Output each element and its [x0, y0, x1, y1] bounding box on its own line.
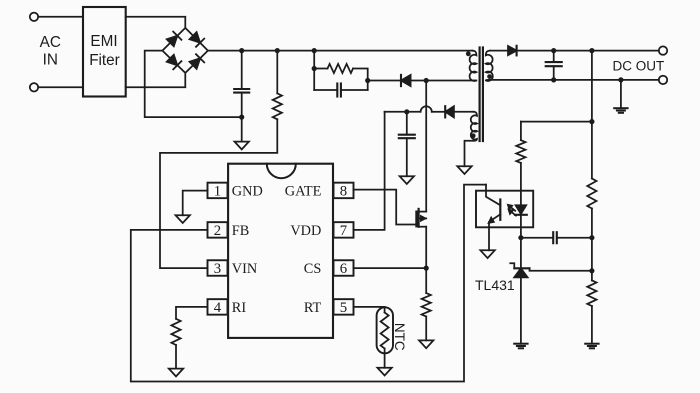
- svg-text:3: 3: [214, 261, 221, 277]
- junction: [312, 48, 317, 53]
- resistor R3 upper divider: [587, 179, 596, 209]
- wire: [521, 121, 592, 123]
- svg-text:5: 5: [340, 300, 347, 316]
- wire: [314, 68, 327, 70]
- svg-text:4: 4: [214, 300, 222, 316]
- svg-text:6: 6: [340, 261, 347, 277]
- pin 1 GND: [208, 183, 263, 200]
- svg-text:VDD: VDD: [290, 223, 321, 239]
- label: AC IN: [40, 34, 61, 68]
- capacitor C4 output: [546, 51, 562, 80]
- junction: [404, 109, 409, 114]
- diode D3 output: [508, 46, 517, 56]
- EMI filter block: [83, 7, 126, 97]
- wire: [126, 17, 186, 28]
- wire: [38, 16, 83, 18]
- ground: [480, 250, 494, 258]
- wire: output return: [490, 79, 659, 81]
- svg-text:EMI: EMI: [90, 33, 117, 50]
- ground: earth: [614, 108, 627, 113]
- transformer T1 core: [480, 48, 483, 142]
- wire: [490, 50, 507, 52]
- wire: [354, 307, 385, 313]
- capacitor C3 VDD: [399, 112, 415, 176]
- junction: [589, 268, 594, 273]
- pin 5 RT: [304, 299, 354, 316]
- svg-text:Fiter: Fiter: [89, 52, 120, 69]
- terminal: AC IN bottom: [30, 83, 38, 91]
- label: TL431: [475, 277, 515, 293]
- wire: pin1 to gnd: [183, 191, 208, 216]
- wire: [313, 51, 315, 90]
- label: NTC: [392, 323, 407, 351]
- label: DC OUT: [613, 58, 665, 73]
- wire: [520, 277, 522, 343]
- pin 2 FB: [208, 222, 250, 239]
- wire: aux with hop over drain: [385, 106, 446, 112]
- capacitor C2 clamp: [337, 84, 341, 97]
- junction: [239, 48, 244, 53]
- resistor R6 RI: [171, 319, 180, 345]
- wire: [145, 51, 242, 118]
- ground: [176, 215, 190, 223]
- wire: [38, 86, 83, 88]
- wire: [276, 51, 278, 94]
- pin 6 CS: [304, 260, 354, 277]
- wire: FB loop: [131, 185, 486, 382]
- ground: earth: [514, 344, 527, 349]
- diode D1 clamp: [401, 75, 411, 86]
- junction: [424, 78, 429, 83]
- wire: HV rail: [208, 50, 472, 52]
- junction: [551, 77, 556, 82]
- resistor R4 lower divider: [587, 280, 596, 306]
- transformer T1 primary winding: [470, 51, 477, 81]
- wire: [341, 89, 368, 91]
- wire: [520, 238, 522, 269]
- polarity dot primary: [466, 51, 471, 56]
- capacitor C5 comp: [553, 232, 557, 243]
- wire: [557, 237, 592, 239]
- junction: [239, 115, 244, 120]
- svg-text:GATE: GATE: [285, 183, 322, 199]
- opto transistor: [486, 185, 500, 251]
- ground: [419, 340, 433, 348]
- label: EMI Fiter: [89, 33, 120, 69]
- svg-text:2: 2: [214, 223, 221, 239]
- terminal: DC OUT +: [659, 46, 667, 54]
- wire: [126, 73, 186, 87]
- svg-text:RI: RI: [232, 300, 247, 316]
- resistor R7 sense: [422, 293, 431, 317]
- capacitor C1 bulk: [234, 51, 249, 118]
- bridge diode top-right: [190, 32, 205, 47]
- transformer T1 secondary winding: [486, 51, 493, 81]
- junction: [589, 235, 594, 240]
- optocoupler U2 box: [476, 191, 533, 228]
- svg-text:RT: RT: [304, 300, 322, 316]
- terminal: AC IN top: [30, 13, 38, 21]
- svg-text:TL431: TL431: [475, 277, 515, 293]
- terminal: DC OUT -: [659, 76, 667, 84]
- wire: [517, 50, 659, 52]
- resistor R2 clamp: [328, 64, 354, 73]
- pin 7 VDD: [290, 222, 353, 239]
- junction: [618, 77, 623, 82]
- ground: earth: [585, 344, 598, 349]
- wire: VDD: [354, 112, 385, 230]
- wire: [620, 80, 622, 108]
- svg-text:NTC: NTC: [392, 323, 407, 351]
- wire: drain: [425, 81, 427, 212]
- wire: [425, 317, 427, 341]
- wire: [160, 119, 277, 268]
- svg-text:VIN: VIN: [232, 261, 257, 277]
- pin 8 GATE: [285, 183, 354, 200]
- transistor Q1 MOSFET: [416, 209, 426, 227]
- thermistor NTC: [377, 307, 393, 353]
- svg-text:8: 8: [340, 184, 347, 200]
- wire: [175, 345, 177, 369]
- wire: [520, 122, 522, 141]
- resistor R1 startup: [273, 93, 282, 119]
- wire: gate drive: [354, 190, 417, 225]
- wire: [591, 51, 593, 179]
- junction: [518, 235, 523, 240]
- junction: [589, 119, 594, 124]
- wire: source: [425, 227, 427, 268]
- junction: [424, 266, 429, 271]
- polarity dot aux: [471, 133, 476, 138]
- pin 3 VIN: [208, 260, 258, 277]
- wire: [384, 349, 386, 368]
- svg-text:DC OUT: DC OUT: [613, 58, 665, 73]
- wire: [241, 117, 243, 142]
- ground: [235, 142, 249, 150]
- junction: [589, 48, 594, 53]
- wire: [454, 111, 474, 113]
- wire: [176, 307, 208, 319]
- opto LED: [515, 191, 527, 238]
- wire: [411, 80, 477, 82]
- wire: [425, 268, 427, 293]
- ground: [169, 369, 183, 377]
- pin 4 RI: [208, 299, 247, 316]
- TL431 U3: [510, 263, 592, 277]
- wire: [521, 237, 553, 239]
- svg-text:AC: AC: [40, 34, 61, 51]
- junction: [551, 48, 556, 53]
- wire: [591, 306, 593, 344]
- svg-text:FB: FB: [232, 223, 250, 239]
- svg-text:7: 7: [340, 223, 347, 239]
- wire: [520, 163, 522, 191]
- diode D2 aux: [445, 106, 454, 117]
- wire: [353, 69, 368, 91]
- resistor R5 opto feed: [516, 140, 525, 163]
- transformer T1 aux winding: [471, 112, 477, 141]
- bridge rectifier BR1 diamond: [162, 28, 208, 73]
- IC U1 body: [228, 164, 333, 338]
- ground: [400, 176, 414, 184]
- wire: [314, 89, 337, 91]
- wire: [354, 267, 427, 269]
- svg-text:GND: GND: [232, 183, 263, 199]
- svg-text:1: 1: [214, 184, 221, 200]
- wire: [368, 80, 401, 82]
- junction: [312, 66, 317, 71]
- wire: [591, 209, 593, 281]
- svg-text:CS: CS: [304, 261, 322, 277]
- junction: [365, 78, 370, 83]
- ground: [457, 166, 471, 174]
- bridge diode bottom-right: [190, 54, 205, 69]
- polarity dot secondary: [487, 74, 492, 79]
- bridge diode bottom-left: [167, 55, 182, 70]
- opto light arrows: [508, 205, 516, 216]
- bridge diode top-left: [167, 32, 182, 47]
- svg-text:IN: IN: [43, 51, 58, 68]
- wire: [465, 141, 474, 166]
- junction: [275, 48, 280, 53]
- ground: [377, 368, 391, 376]
